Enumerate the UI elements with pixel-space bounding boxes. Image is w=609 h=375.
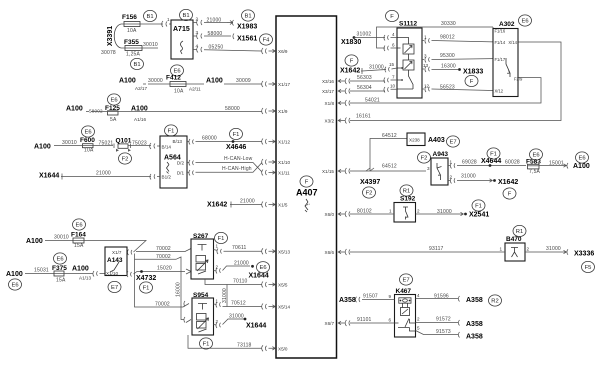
pin X3/2 connector xyxy=(338,118,350,124)
ECU A143 xyxy=(105,247,127,276)
svg-text:E6: E6 xyxy=(11,283,18,289)
pin X1/9 connector xyxy=(262,108,276,114)
svg-text:A407: A407 xyxy=(296,188,318,198)
wire 64512 branch up to X238 xyxy=(370,139,407,172)
label F2 circle left of A943 xyxy=(418,152,431,163)
pin X6/0 connector xyxy=(338,211,350,217)
label B1 circle left xyxy=(144,10,157,21)
label F circle of A407 xyxy=(300,176,313,187)
svg-text:X1830: X1830 xyxy=(341,39,361,46)
svg-text:X5/13: X5/13 xyxy=(278,249,290,254)
svg-text:F412: F412 xyxy=(166,75,181,82)
svg-text:X3/17: X3/17 xyxy=(322,89,334,94)
node X4732 xyxy=(140,270,143,273)
svg-text:X1/12: X1/12 xyxy=(278,140,290,145)
svg-text:73118: 73118 xyxy=(237,343,252,349)
svg-text:A358: A358 xyxy=(466,334,483,341)
svg-text:2: 2 xyxy=(527,247,530,252)
svg-text:D/1: D/1 xyxy=(177,171,185,176)
svg-text:R1: R1 xyxy=(403,189,410,195)
svg-text:F: F xyxy=(508,192,512,198)
svg-text:X1983: X1983 xyxy=(237,24,257,31)
svg-text:5A: 5A xyxy=(110,117,117,123)
svg-text:68000: 68000 xyxy=(202,136,217,142)
svg-text:6: 6 xyxy=(392,43,395,48)
wire 30010 to F164 xyxy=(45,240,73,242)
svg-text:91101: 91101 xyxy=(357,317,372,323)
wire 70110 S267 bottom to X5/5 xyxy=(205,279,262,285)
svg-text:X4732: X4732 xyxy=(136,275,156,282)
svg-text:X3/2: X3/2 xyxy=(325,119,335,124)
svg-text:E6: E6 xyxy=(84,130,91,136)
svg-text:15A: 15A xyxy=(74,243,84,249)
svg-text:F1: F1 xyxy=(490,152,497,158)
svg-text:75021: 75021 xyxy=(99,140,114,146)
pin X1/8 connector xyxy=(338,100,350,106)
wire 73118 S954 to X5/0 xyxy=(188,335,262,348)
svg-text:56304: 56304 xyxy=(357,85,372,91)
svg-text:58000: 58000 xyxy=(208,31,223,37)
pin X3/17 connector xyxy=(338,88,350,94)
label F circle above X1642 xyxy=(345,55,358,66)
svg-text:F2: F2 xyxy=(122,157,129,163)
svg-text:31000: 31000 xyxy=(461,174,476,180)
label F1 circle above X4644 xyxy=(487,148,500,159)
svg-text:A143: A143 xyxy=(107,257,123,264)
node X1642 right xyxy=(493,179,496,182)
svg-text:F355: F355 xyxy=(124,39,139,46)
wire 70002 to S267 xyxy=(136,249,191,252)
wire 15031 to F375 xyxy=(25,273,54,275)
svg-text:64512: 64512 xyxy=(382,133,397,139)
svg-text:A100: A100 xyxy=(119,78,136,85)
node X4644 xyxy=(489,164,492,167)
svg-text:X5/14: X5/14 xyxy=(278,305,290,310)
svg-text:D/2: D/2 xyxy=(177,161,185,166)
svg-text:91596: 91596 xyxy=(434,294,449,300)
svg-text:F2/9: F2/9 xyxy=(514,77,523,82)
svg-text:30010: 30010 xyxy=(143,42,158,48)
svg-text:2: 2 xyxy=(417,209,420,214)
svg-text:E6: E6 xyxy=(259,265,266,271)
svg-text:91507: 91507 xyxy=(363,294,378,300)
svg-text:F1/17: F1/17 xyxy=(495,57,506,62)
label E7 circle xyxy=(447,136,460,147)
svg-text:69028: 69028 xyxy=(462,160,477,166)
wire 91101 X6/7 to K467 pin 6 xyxy=(350,322,395,324)
svg-text:05250: 05250 xyxy=(209,45,224,51)
svg-text:1,25A: 1,25A xyxy=(126,52,141,58)
pin X3/16 connector xyxy=(338,78,350,84)
svg-text:E6: E6 xyxy=(75,223,82,229)
svg-text:1: 1 xyxy=(167,17,170,22)
wire 80102 X6/0 to S192 xyxy=(350,213,394,215)
node X1644 at S954 xyxy=(244,318,247,321)
label F1 circle above X2541 xyxy=(472,200,485,211)
svg-text:X1/15: X1/15 xyxy=(322,169,334,174)
svg-text:B/14: B/14 xyxy=(162,145,172,150)
wire F164 to A143 X1/7 xyxy=(84,241,146,256)
label R1 circle above B470 xyxy=(513,225,526,236)
svg-text:4: 4 xyxy=(417,293,420,298)
svg-text:15031: 15031 xyxy=(34,268,49,274)
svg-text:10: 10 xyxy=(390,84,396,89)
pin X5/5 connector xyxy=(262,282,276,288)
svg-text:E6: E6 xyxy=(56,257,63,263)
label F1 circle right of S267 xyxy=(215,232,228,243)
label E6 circle right of A302 xyxy=(519,15,532,26)
svg-text:H-CAN-Low: H-CAN-Low xyxy=(224,156,253,162)
relay A715 xyxy=(171,20,193,59)
svg-text:B1: B1 xyxy=(146,14,153,20)
pin X1/15 connector xyxy=(338,168,350,174)
svg-text:58000: 58000 xyxy=(225,106,240,112)
control unit A407 (main box) xyxy=(276,16,337,358)
svg-text:X6/0: X6/0 xyxy=(325,212,335,217)
svg-text:70512: 70512 xyxy=(231,301,246,307)
wire 30010 xyxy=(121,47,158,49)
svg-text:58002: 58002 xyxy=(89,109,103,114)
svg-text:X1/5: X1/5 xyxy=(278,203,288,208)
svg-text:B/13: B/13 xyxy=(173,139,183,144)
svg-text:70611: 70611 xyxy=(232,245,247,251)
svg-text:X1/17: X1/17 xyxy=(278,82,290,87)
svg-text:S192: S192 xyxy=(400,196,416,203)
wire 30010 xyxy=(54,145,80,147)
svg-text:31000: 31000 xyxy=(437,209,452,215)
svg-text:31000: 31000 xyxy=(222,288,228,303)
svg-text:F1: F1 xyxy=(143,286,150,292)
svg-text:B1: B1 xyxy=(244,14,251,20)
svg-text:S954: S954 xyxy=(193,292,209,299)
svg-text:30078: 30078 xyxy=(101,50,116,56)
svg-text:10A: 10A xyxy=(84,148,94,154)
svg-text:30330: 30330 xyxy=(441,21,456,27)
svg-text:E6: E6 xyxy=(521,19,528,25)
label F circle below X1642 xyxy=(503,188,516,199)
svg-text:F600: F600 xyxy=(80,137,95,144)
label E6 circle below A100 xyxy=(9,279,22,290)
svg-text:X1/7: X1/7 xyxy=(112,250,122,255)
svg-text:B470: B470 xyxy=(506,236,522,243)
svg-text:R2: R2 xyxy=(491,299,498,305)
svg-text:X3336: X3336 xyxy=(574,251,594,258)
svg-text:K467: K467 xyxy=(396,288,412,295)
wire to A143 X1/10 xyxy=(64,271,105,277)
label F circle above S1112 xyxy=(386,10,399,21)
svg-text:A1/16: A1/16 xyxy=(134,117,146,122)
svg-text:X1644: X1644 xyxy=(39,173,59,180)
wire 93117 X6/6 to B470 xyxy=(350,251,505,253)
label F2 circle below X4397 xyxy=(363,187,376,198)
label E6 circle above F600 xyxy=(82,126,95,137)
svg-text:F4: F4 xyxy=(263,38,271,44)
svg-text:X3/16: X3/16 xyxy=(322,79,334,84)
svg-text:5: 5 xyxy=(417,326,420,331)
wire 15001 to A100 xyxy=(539,163,568,169)
node X4397 xyxy=(366,168,374,171)
svg-text:A358: A358 xyxy=(466,321,483,328)
wire 58002 xyxy=(86,111,107,113)
node X1833 xyxy=(458,68,461,71)
svg-text:H-CAN-High: H-CAN-High xyxy=(222,166,252,172)
svg-text:56303: 56303 xyxy=(357,75,372,81)
svg-text:F1: F1 xyxy=(168,129,175,135)
svg-text:E7: E7 xyxy=(111,285,118,291)
svg-text:A100: A100 xyxy=(66,106,83,113)
svg-text:B1: B1 xyxy=(182,13,189,19)
svg-text:31000: 31000 xyxy=(546,246,561,252)
label F1 circle above X4646 xyxy=(230,128,243,139)
svg-text:X1/10: X1/10 xyxy=(278,160,290,165)
svg-text:3: 3 xyxy=(427,166,430,171)
wire 70002 second branch xyxy=(135,257,192,323)
svg-text:X6/7: X6/7 xyxy=(325,321,335,326)
svg-text:X3391: X3391 xyxy=(107,26,114,46)
svg-text:F: F xyxy=(350,59,354,65)
wire H-CAN-High xyxy=(187,163,262,176)
label F2 circle below Q101 xyxy=(119,153,132,164)
svg-text:X1642: X1642 xyxy=(498,179,518,186)
svg-text:F5: F5 xyxy=(585,265,592,271)
svg-text:70002: 70002 xyxy=(156,254,171,260)
svg-text:75023: 75023 xyxy=(132,140,147,146)
label R1 circle above S192 xyxy=(400,185,413,196)
hall sensor S267 xyxy=(191,239,214,279)
pin X6/6 connector xyxy=(338,249,350,255)
svg-text:A358: A358 xyxy=(339,297,356,304)
svg-text:2: 2 xyxy=(417,317,420,322)
svg-text:A2/11: A2/11 xyxy=(189,87,201,92)
svg-text:A100: A100 xyxy=(573,163,590,170)
label E6 circle above F164 xyxy=(73,219,86,230)
pin X6/7 connector xyxy=(338,320,350,326)
label F1 circle below X4732 xyxy=(140,282,153,293)
svg-text:30010: 30010 xyxy=(62,140,77,146)
svg-text:30000: 30000 xyxy=(148,78,163,84)
svg-text:A358: A358 xyxy=(466,297,483,304)
svg-text:16000: 16000 xyxy=(176,282,182,297)
switch S192 xyxy=(394,203,416,223)
wire 91507 to K467 pin 9 xyxy=(355,297,394,303)
wire H-CAN-Low xyxy=(187,160,262,172)
svg-text:X4397: X4397 xyxy=(360,179,380,186)
svg-text:X2541: X2541 xyxy=(469,212,489,219)
switch icon inside A407 xyxy=(305,199,308,212)
svg-text:91572: 91572 xyxy=(436,317,451,323)
svg-text:54021: 54021 xyxy=(365,98,380,104)
wire 75023 xyxy=(128,143,160,149)
svg-text:F1: F1 xyxy=(233,132,240,138)
label E6 circle above A100 xyxy=(576,152,589,163)
label B1 circle above A715 xyxy=(180,9,193,20)
label E6 circle above F125 xyxy=(108,94,121,105)
svg-text:X6/9: X6/9 xyxy=(278,49,288,54)
svg-text:X1561: X1561 xyxy=(237,36,257,43)
node X2541 xyxy=(464,213,467,216)
connector X238 / ECU A403 xyxy=(407,133,425,146)
svg-text:A943: A943 xyxy=(433,151,449,158)
pin X1/12 connector xyxy=(262,139,276,145)
svg-text:X5/5: X5/5 xyxy=(278,283,288,288)
wire 70002 branch down to S954 xyxy=(135,254,190,308)
svg-text:70002: 70002 xyxy=(156,246,171,252)
svg-text:98012: 98012 xyxy=(440,35,455,41)
wire 58000 to X1/9 xyxy=(118,111,262,113)
label F circle below X1833 xyxy=(465,75,478,86)
svg-text:S267: S267 xyxy=(193,233,209,240)
node X4646 xyxy=(232,140,235,143)
svg-text:X/14: X/14 xyxy=(508,40,517,45)
svg-text:15: 15 xyxy=(389,62,395,67)
svg-text:A403: A403 xyxy=(428,137,445,144)
sensor B470 xyxy=(505,243,525,261)
pin X5/0 connector xyxy=(262,345,276,351)
svg-text:15020: 15020 xyxy=(157,266,172,272)
hall sensor S954 xyxy=(192,298,214,335)
svg-text:A715: A715 xyxy=(173,26,190,33)
svg-text:X238: X238 xyxy=(409,138,420,143)
svg-text:10A: 10A xyxy=(174,89,184,95)
pin X5/14 connector xyxy=(262,304,276,310)
svg-text:21000: 21000 xyxy=(207,18,222,24)
label E7 circle above K467 xyxy=(400,274,413,285)
svg-text:80102: 80102 xyxy=(357,209,372,215)
ECU A564 xyxy=(160,136,187,188)
pin X1/11 connector xyxy=(262,170,276,176)
svg-text:X1/9: X1/9 xyxy=(278,109,288,114)
svg-text:X5/0: X5/0 xyxy=(278,346,288,351)
svg-text:15A: 15A xyxy=(56,278,66,284)
svg-text:7: 7 xyxy=(392,75,395,80)
svg-text:1: 1 xyxy=(500,247,503,252)
relay K467 xyxy=(395,295,416,338)
svg-text:A2/17: A2/17 xyxy=(135,86,147,91)
svg-text:93117: 93117 xyxy=(429,246,444,252)
pin X1/5 connector xyxy=(262,202,276,208)
svg-text:F1/16: F1/16 xyxy=(495,29,506,34)
wire 30330 from A302 F1/16 to pin6 xyxy=(377,27,494,51)
svg-text:F: F xyxy=(390,14,394,20)
svg-text:X1644: X1644 xyxy=(249,273,269,280)
svg-text:16300: 16300 xyxy=(441,64,456,70)
svg-text:F1: F1 xyxy=(475,204,482,210)
svg-text:F: F xyxy=(470,79,474,85)
wire 31000 to pin15 xyxy=(361,67,397,73)
label F1 circle below S954 xyxy=(200,338,213,349)
svg-text:64512: 64512 xyxy=(382,164,397,170)
svg-text:F164: F164 xyxy=(71,232,86,239)
svg-text:30010: 30010 xyxy=(54,235,69,241)
svg-text:30009: 30009 xyxy=(236,78,251,84)
wire 30009 to X1/17 xyxy=(186,83,262,85)
svg-text:21000: 21000 xyxy=(240,199,255,205)
wire 68000 B/13 to X4646 xyxy=(187,139,262,145)
svg-text:E6: E6 xyxy=(578,156,585,162)
svg-text:95300: 95300 xyxy=(440,53,455,59)
pin X1/17 connector xyxy=(262,81,276,87)
svg-text:1: 1 xyxy=(216,244,219,249)
ECU A943 xyxy=(431,158,448,185)
label F1 circle above A564 xyxy=(165,125,178,136)
svg-text:A100: A100 xyxy=(72,266,89,273)
wire 21000 to A564 B1/2 xyxy=(61,174,160,180)
svg-text:E7: E7 xyxy=(449,140,456,146)
node X1644 at S267 xyxy=(251,265,254,268)
pin X1/10 connector xyxy=(262,159,276,165)
svg-text:X4646: X4646 xyxy=(226,144,246,151)
net 31000 vertical wire xyxy=(226,285,228,307)
wire 16161 X3/2 to A302 X/14 xyxy=(350,42,561,121)
svg-text:21000: 21000 xyxy=(96,171,111,177)
svg-text:X1833: X1833 xyxy=(463,69,483,76)
wire to A715 pin1 xyxy=(121,23,163,25)
svg-text:70002: 70002 xyxy=(155,302,170,308)
wire 56304 X3/17 to pin10 xyxy=(350,87,397,93)
svg-text:E7: E7 xyxy=(402,278,409,284)
svg-text:F156: F156 xyxy=(122,14,137,21)
wire 21000 to X1/5 xyxy=(230,202,262,208)
wire 64512 X1/15 to A943 pin3 xyxy=(350,170,426,172)
svg-text:X/12: X/12 xyxy=(495,89,504,94)
svg-text:31000: 31000 xyxy=(229,314,244,320)
svg-text:10A: 10A xyxy=(127,28,137,34)
wire 54021 X1/8 to A302 F2/9 xyxy=(350,78,541,103)
svg-text:A100: A100 xyxy=(206,78,223,85)
svg-text:16161: 16161 xyxy=(356,114,371,120)
node X1830 xyxy=(353,36,356,39)
switch unit S1112 xyxy=(397,28,422,98)
wire 56303 X3/16 to pin7 xyxy=(350,78,397,84)
svg-text:F1: F1 xyxy=(218,236,225,242)
svg-text:9: 9 xyxy=(389,294,392,299)
svg-text:X6/6: X6/6 xyxy=(325,250,335,255)
label E6 circle above F583 xyxy=(530,149,543,160)
svg-text:1: 1 xyxy=(389,209,392,214)
svg-text:E6: E6 xyxy=(110,98,117,104)
svg-text:E6: E6 xyxy=(532,153,539,159)
ECU A302 xyxy=(493,29,518,97)
label F5 circle below X3336 xyxy=(582,261,595,272)
svg-text:A100: A100 xyxy=(6,271,23,278)
svg-text:F2: F2 xyxy=(421,156,428,162)
svg-text:70110: 70110 xyxy=(233,279,248,285)
svg-text:60028: 60028 xyxy=(505,160,520,166)
pin X5/13 connector xyxy=(262,248,276,254)
label E6 circle above F375 xyxy=(54,253,67,264)
svg-text:A100: A100 xyxy=(34,144,51,151)
svg-text:56523: 56523 xyxy=(440,85,455,91)
pin X6/9 connector xyxy=(262,48,276,54)
svg-text:X1/10: X1/10 xyxy=(106,271,118,276)
svg-text:X1/11: X1/11 xyxy=(278,171,290,176)
label B1 circle above X1983 xyxy=(242,10,255,21)
svg-text:F1: F1 xyxy=(203,342,210,348)
label B1 circle below F355 xyxy=(131,58,144,69)
wire 75021 xyxy=(93,145,113,147)
svg-text:F: F xyxy=(305,180,309,186)
wire 30000 xyxy=(143,83,170,85)
label E6 circle above F412 xyxy=(171,65,184,76)
label F4 circle xyxy=(260,34,273,45)
svg-text:A100: A100 xyxy=(26,238,43,245)
label E6 circle xyxy=(257,262,270,273)
svg-text:7,5A: 7,5A xyxy=(529,169,541,175)
svg-text:6: 6 xyxy=(389,318,392,323)
svg-text:S1112: S1112 xyxy=(399,21,417,28)
svg-text:F1/14: F1/14 xyxy=(495,40,506,45)
svg-text:R1: R1 xyxy=(516,229,523,235)
